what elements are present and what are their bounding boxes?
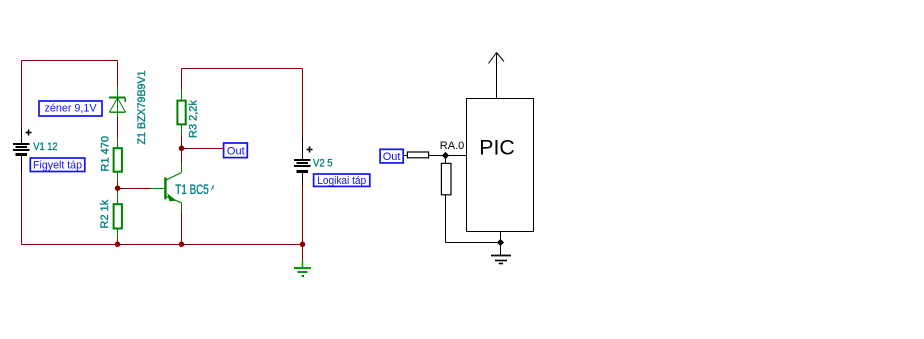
plus sign V1 xyxy=(26,130,32,136)
node junction out xyxy=(179,146,185,152)
label partial 4 xyxy=(210,182,216,197)
wire R1 bottom to junction xyxy=(117,181,119,192)
wire base green segment xyxy=(150,188,165,190)
wire zener branch upper xyxy=(117,61,119,87)
ground (right, black) xyxy=(491,256,511,264)
node junction bottom V2 xyxy=(300,242,306,248)
wire ground stub xyxy=(302,245,304,262)
node junction RA.0 xyxy=(442,152,449,159)
svg-text:R1 470: R1 470 xyxy=(100,136,112,171)
wire out stub xyxy=(404,155,408,157)
node junction bottom emitter xyxy=(179,242,185,248)
power arrow xyxy=(489,53,505,64)
svg-text:zéner 9,1V: zéner 9,1V xyxy=(45,103,98,115)
resistor R2 xyxy=(114,192,122,239)
wire base xyxy=(118,188,151,190)
svg-text:V1 12: V1 12 xyxy=(33,141,57,153)
svg-text:PIC: PIC xyxy=(479,136,515,160)
wire bottom rail xyxy=(22,244,303,246)
battery V2 xyxy=(294,138,311,185)
node junction PIC ground xyxy=(497,239,504,246)
wire bottom across xyxy=(446,242,501,244)
wire left rail upper xyxy=(21,61,23,129)
transistor T1 xyxy=(164,163,181,213)
svg-text:V2 5: V2 5 xyxy=(313,158,333,170)
svg-text:R2 1k: R2 1k xyxy=(99,199,111,228)
wire junction down xyxy=(445,156,447,164)
svg-text:Figyelt táp: Figyelt táp xyxy=(33,159,82,171)
svg-text:T1 BC5: T1 BC5 xyxy=(175,182,209,197)
resistor R1 xyxy=(114,139,122,182)
wire top rail left loop xyxy=(22,60,118,62)
plus sign V2 xyxy=(307,147,313,153)
battery V1 xyxy=(13,128,30,173)
label box Figyelt táp xyxy=(30,158,85,172)
label box Logikai táp xyxy=(314,174,370,187)
wire V2 branch upper xyxy=(302,69,304,139)
wire V2 branch lower xyxy=(302,185,304,245)
label box Out (left) xyxy=(224,143,248,158)
wire PIC bottom stub xyxy=(500,232,502,243)
wire zener to R1 xyxy=(117,117,119,139)
wire to ground xyxy=(500,243,502,256)
wire left rail lower xyxy=(21,173,23,245)
PIC U1 box xyxy=(467,99,534,232)
svg-text:Out: Out xyxy=(383,151,401,163)
wire out junction to Out box xyxy=(182,148,224,150)
wire resistor to PIC xyxy=(429,155,467,157)
svg-text:R3 2,2k: R3 2,2k xyxy=(188,100,200,138)
resistor series (horizontal) xyxy=(407,152,428,158)
node junction bottom R2 xyxy=(115,242,121,248)
wire emitter down to rail xyxy=(181,213,183,245)
svg-text:Out: Out xyxy=(227,146,245,158)
svg-text:RA.0: RA.0 xyxy=(440,140,464,152)
node junction R1-R2-base xyxy=(115,185,121,191)
svg-text:Logikai táp: Logikai táp xyxy=(317,175,366,187)
wire top rail 2 xyxy=(182,68,303,70)
wire PIC top to arrow xyxy=(496,53,498,99)
ground (left, green) xyxy=(294,261,311,276)
resistor pull-down (vertical) xyxy=(441,163,451,194)
wire resistor down xyxy=(445,195,447,243)
label box zéner 9,1V xyxy=(39,101,102,116)
label box Out (right) xyxy=(380,149,403,163)
zener diode Z1 xyxy=(109,86,126,117)
wire R3 branch top xyxy=(181,69,183,91)
svg-text:Z1 BZX79B9V1: Z1 BZX79B9V1 xyxy=(136,71,148,145)
resistor R3 xyxy=(177,90,185,135)
wire junction to R2 maroon stub xyxy=(117,238,119,245)
wire R3 bottom to collector xyxy=(181,135,183,164)
